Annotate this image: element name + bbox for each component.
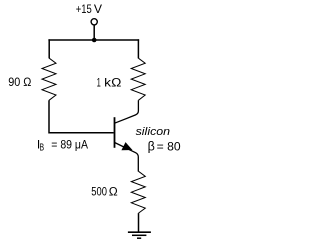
wire from terminal to rail (93, 25, 95, 40)
resistor R2 1 kohm (131, 58, 145, 100)
ground symbol (128, 232, 151, 238)
svg-text:silicon: silicon (136, 126, 171, 138)
transistor Q1 emitter lead (115, 143, 139, 172)
wire collector lead (115, 100, 139, 123)
resistor R3 500 ohm (131, 171, 145, 213)
transistor Q1 emitter arrow (122, 143, 132, 150)
transistor Q1 base bar (114, 117, 116, 148)
supply terminal circle (91, 19, 97, 25)
svg-text:90 Ω: 90 Ω (8, 75, 31, 89)
wire top rail (48, 39, 139, 41)
svg-text:1: 1 (97, 76, 101, 90)
junction dot (92, 38, 97, 43)
svg-text:500: 500 (91, 184, 107, 198)
svg-text:Ω: Ω (109, 184, 118, 198)
wire right branch upper (137, 39, 139, 58)
svg-text:B: B (40, 143, 45, 154)
wire left branch upper (48, 39, 50, 58)
wire emitter resistor to ground (138, 213, 140, 232)
svg-text:= 80: = 80 (157, 140, 181, 154)
resistor R1 90 ohm (42, 58, 56, 100)
svg-text:kΩ: kΩ (104, 76, 121, 90)
svg-text:= 89 μA: = 89 μA (51, 138, 88, 152)
svg-text:V: V (94, 2, 103, 16)
svg-text:+15: +15 (76, 2, 92, 16)
wire left branch lower and base wire (49, 100, 114, 133)
svg-text:β: β (148, 140, 155, 154)
